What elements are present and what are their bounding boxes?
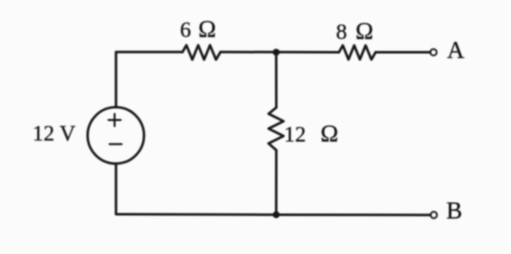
resistor R2 8-ohm [339,45,376,59]
wire: 8-ohm to terminal A [376,51,431,54]
svg-text:A: A [447,38,465,64]
svg-text:Ω: Ω [356,19,374,45]
svg-text:B: B [446,199,462,225]
wire: 12-ohm to node N2 [275,150,278,215]
wire: node N1 down to 12-ohm resistor [275,52,278,107]
terminal A (open circle) [430,49,436,55]
terminal B (open circle) [431,212,437,218]
svg-text:Ω: Ω [321,121,339,147]
wire: 6-ohm to node N1 to 8-ohm [221,51,340,54]
svg-text:12: 12 [284,121,306,146]
node N1 junction dot [273,49,280,56]
svg-text:6: 6 [180,17,191,42]
resistor R1 6-ohm [183,45,221,59]
svg-text:Ω: Ω [198,17,216,43]
resistor R3 12-ohm (vertical) [269,108,284,151]
voltage source V1 circle [88,107,144,163]
wire: source bottom to bottom-left corner to node N2 [116,164,276,215]
wire: node N2 to terminal B [276,213,430,216]
wire top-left: source top to corner and across to 6-ohm resistor [116,52,183,107]
node N2 junction dot [273,211,280,218]
svg-text:12 V: 12 V [33,121,76,146]
svg-text:8: 8 [336,19,347,44]
minus sign inside source [110,143,122,145]
plus sign inside source [109,114,121,126]
